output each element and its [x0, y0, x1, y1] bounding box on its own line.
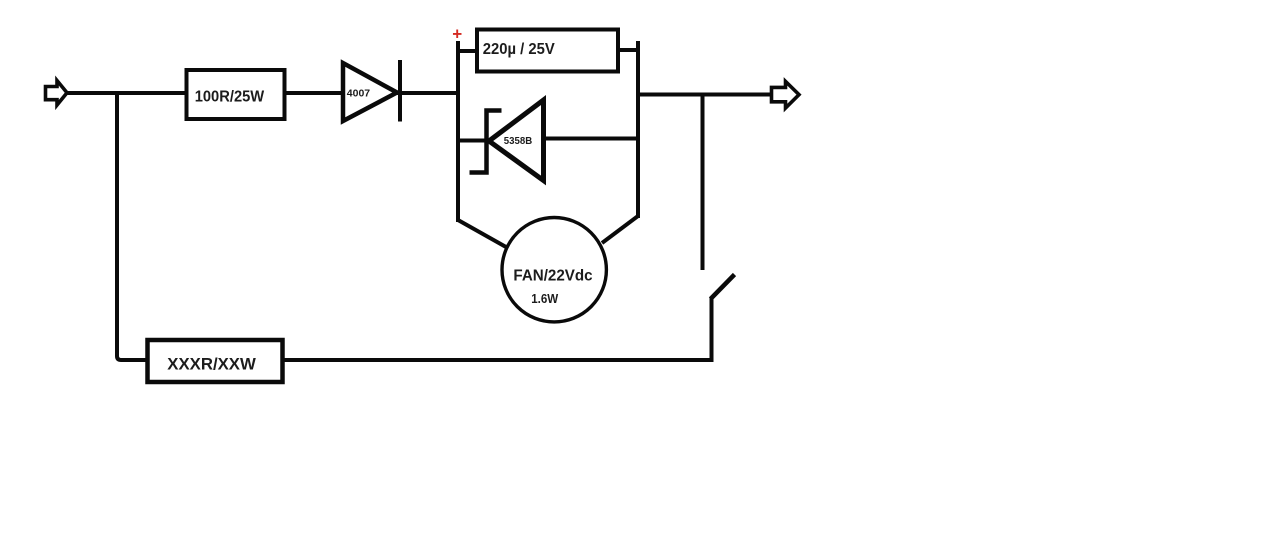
svg-text:5358B: 5358B [504, 136, 532, 147]
svg-text:4007: 4007 [347, 88, 371, 99]
svg-text:220µ / 25V: 220µ / 25V [483, 41, 556, 58]
svg-text:100R/25W: 100R/25W [195, 88, 265, 105]
svg-text:+: + [452, 24, 462, 43]
svg-text:XXXR/XXW: XXXR/XXW [167, 355, 256, 374]
svg-text:1.6W: 1.6W [531, 291, 559, 306]
svg-text:FAN/22Vdc: FAN/22Vdc [513, 267, 593, 284]
